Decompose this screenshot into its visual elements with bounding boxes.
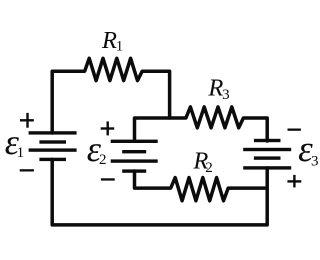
svg-text:2: 2 — [99, 152, 107, 168]
svg-text:1: 1 — [17, 145, 25, 161]
svg-text:1: 1 — [116, 39, 124, 55]
svg-text:2: 2 — [205, 160, 213, 176]
svg-text:R: R — [207, 75, 223, 102]
svg-text:3: 3 — [222, 87, 230, 103]
svg-text:R: R — [101, 27, 117, 54]
svg-text:3: 3 — [311, 154, 319, 170]
